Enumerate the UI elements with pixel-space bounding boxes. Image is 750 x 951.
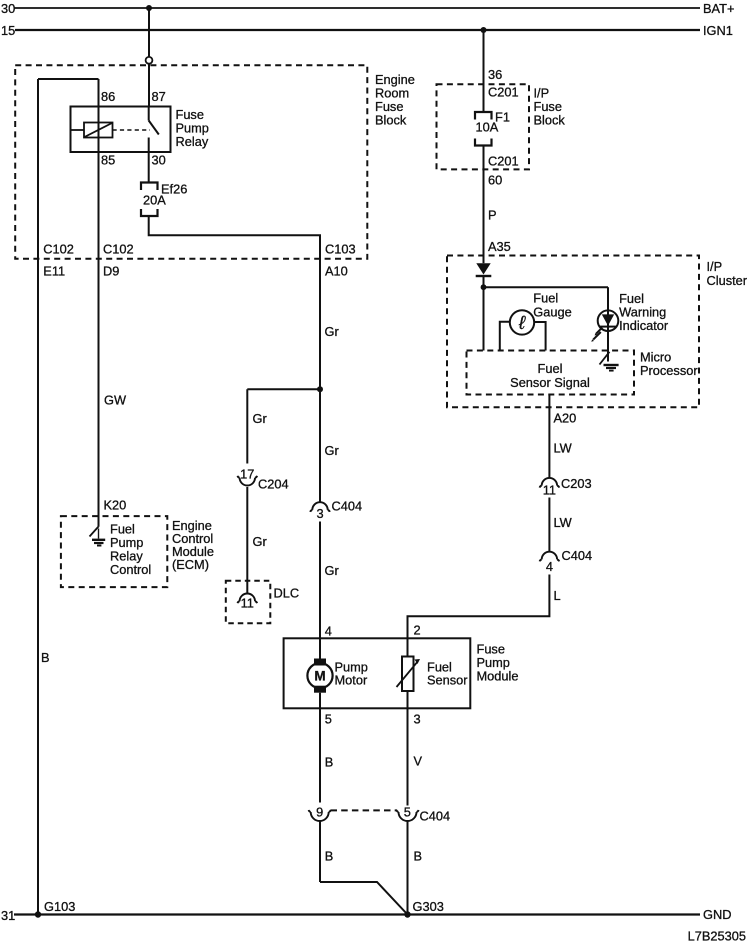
svg-text:V: V xyxy=(414,754,423,769)
svg-text:D9: D9 xyxy=(103,264,119,279)
svg-text:15: 15 xyxy=(1,23,15,38)
svg-text:LW: LW xyxy=(554,515,573,530)
svg-text:3: 3 xyxy=(316,506,323,521)
svg-text:87: 87 xyxy=(152,89,166,104)
svg-text:Motor: Motor xyxy=(335,673,368,688)
svg-text:Processor: Processor xyxy=(640,363,698,378)
svg-text:Gr: Gr xyxy=(253,534,268,549)
svg-text:5: 5 xyxy=(404,805,411,820)
svg-text:GND: GND xyxy=(703,907,731,922)
svg-text:P: P xyxy=(488,208,497,223)
svg-text:C404: C404 xyxy=(332,499,363,514)
svg-text:85: 85 xyxy=(101,153,115,168)
svg-text:IGN1: IGN1 xyxy=(703,23,733,38)
svg-text:GW: GW xyxy=(104,393,127,408)
svg-text:30: 30 xyxy=(1,1,15,16)
svg-text:M: M xyxy=(314,668,325,683)
svg-text:C204: C204 xyxy=(258,477,289,492)
svg-text:C102: C102 xyxy=(43,242,74,257)
svg-text:36: 36 xyxy=(488,67,502,82)
svg-text:LW: LW xyxy=(554,441,573,456)
svg-text:3: 3 xyxy=(414,712,421,727)
svg-text:L7B25305: L7B25305 xyxy=(688,929,746,944)
svg-text:Sensor Signal: Sensor Signal xyxy=(510,375,590,390)
svg-text:Control: Control xyxy=(110,562,151,577)
svg-text:5: 5 xyxy=(325,712,332,727)
svg-text:11: 11 xyxy=(543,483,556,498)
svg-text:Gr: Gr xyxy=(325,563,340,578)
svg-text:Block: Block xyxy=(534,113,566,128)
svg-text:4: 4 xyxy=(546,559,553,574)
svg-text:86: 86 xyxy=(101,89,115,104)
svg-text:DLC: DLC xyxy=(274,586,300,601)
svg-text:20A: 20A xyxy=(143,193,166,208)
svg-text:30: 30 xyxy=(152,153,166,168)
svg-text:G303: G303 xyxy=(413,899,444,914)
svg-text:C201: C201 xyxy=(488,154,519,169)
svg-text:C102: C102 xyxy=(103,242,134,257)
svg-text:K20: K20 xyxy=(104,498,127,513)
svg-text:E11: E11 xyxy=(43,264,65,279)
svg-text:Block: Block xyxy=(375,113,407,128)
svg-text:Relay: Relay xyxy=(176,134,209,149)
svg-text:4: 4 xyxy=(325,624,332,639)
svg-text:A20: A20 xyxy=(554,411,577,426)
svg-text:Gr: Gr xyxy=(253,411,268,426)
svg-text:C203: C203 xyxy=(561,476,592,491)
svg-text:L: L xyxy=(554,588,561,603)
svg-text:BAT+: BAT+ xyxy=(703,1,734,16)
svg-text:17: 17 xyxy=(240,467,254,482)
svg-text:A35: A35 xyxy=(488,239,511,254)
svg-text:2: 2 xyxy=(414,623,421,638)
svg-text:B: B xyxy=(325,755,334,770)
svg-text:C404: C404 xyxy=(420,809,451,824)
svg-text:60: 60 xyxy=(488,173,502,188)
svg-text:11: 11 xyxy=(241,596,254,611)
svg-text:A10: A10 xyxy=(325,264,348,279)
svg-text:Fuel: Fuel xyxy=(533,291,558,306)
svg-text:C404: C404 xyxy=(562,548,593,563)
svg-text:C201: C201 xyxy=(488,85,519,100)
svg-text:Cluster: Cluster xyxy=(707,273,748,288)
svg-text:10A: 10A xyxy=(476,120,499,135)
svg-text:9: 9 xyxy=(316,805,323,820)
svg-text:Module: Module xyxy=(477,669,519,684)
svg-text:ℓ: ℓ xyxy=(518,313,526,334)
svg-text:Gauge: Gauge xyxy=(533,305,571,320)
svg-text:B: B xyxy=(414,849,423,864)
svg-text:B: B xyxy=(41,650,50,665)
svg-text:G103: G103 xyxy=(44,899,75,914)
svg-text:I/P: I/P xyxy=(707,259,723,274)
svg-text:C103: C103 xyxy=(325,242,356,257)
svg-text:(ECM): (ECM) xyxy=(172,557,209,572)
svg-text:Sensor: Sensor xyxy=(427,673,468,688)
svg-text:Gr: Gr xyxy=(325,324,340,339)
svg-text:31: 31 xyxy=(1,908,15,923)
svg-text:Indicator: Indicator xyxy=(619,318,669,333)
svg-text:Fuel: Fuel xyxy=(538,361,563,376)
svg-text:B: B xyxy=(325,849,334,864)
svg-text:Gr: Gr xyxy=(325,443,340,458)
